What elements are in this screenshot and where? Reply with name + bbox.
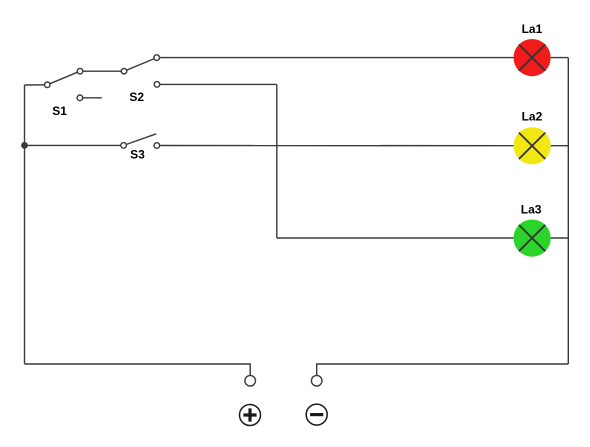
svg-text:S3: S3	[130, 148, 145, 162]
label S2	[129, 90, 144, 104]
wire: right vertical return bus	[567, 58, 569, 364]
wire: S2 upper throw to lamp La1	[157, 57, 514, 59]
battery plus symbol	[240, 405, 261, 426]
wire: bottom run to minus terminal	[317, 364, 569, 375]
switch S1 (changeover, arm to upper throw)	[45, 68, 102, 100]
switch S3 (open)	[121, 134, 160, 149]
label La3	[521, 203, 542, 217]
lamp La1 (red)	[514, 39, 551, 76]
label S3	[130, 148, 145, 162]
label S1	[52, 104, 67, 118]
label La1	[522, 22, 543, 36]
junction: node on left bus feeding S3	[21, 142, 28, 149]
wire: S1 to S2 connecting segment	[80, 70, 124, 72]
switch S2 (changeover, arm to upper throw)	[121, 55, 160, 87]
svg-text:La3: La3	[521, 203, 542, 217]
lamp La3 (green)	[514, 220, 551, 257]
svg-text:La1: La1	[522, 22, 543, 36]
lamp La2 (yellow)	[514, 127, 551, 164]
wire: lamp La2 to right vertical bus	[551, 145, 569, 147]
terminal: plus supply connection point	[245, 375, 256, 386]
wire: lamp La3 to right vertical bus	[551, 237, 569, 239]
battery minus symbol	[306, 404, 327, 425]
wire: top-left horizontal to S1 common	[25, 84, 48, 86]
wire: vertical drop to lamp La3 branch	[276, 84, 278, 238]
svg-text:La2: La2	[522, 109, 543, 123]
wire: S3 to lamp La2	[157, 145, 514, 147]
wire: left bus to S3	[25, 144, 124, 146]
wire: bottom run to plus terminal	[25, 364, 251, 375]
svg-text:S2: S2	[129, 90, 144, 104]
svg-text:S1: S1	[52, 104, 67, 118]
terminal: minus supply connection point	[311, 375, 322, 386]
wire: S2 lower throw horizontal run	[157, 83, 277, 85]
wire: horizontal run to lamp La3	[277, 237, 514, 239]
label La2	[522, 109, 543, 123]
wire: lamp La1 to right vertical bus	[551, 57, 569, 59]
wire: left vertical supply bus	[24, 85, 26, 364]
